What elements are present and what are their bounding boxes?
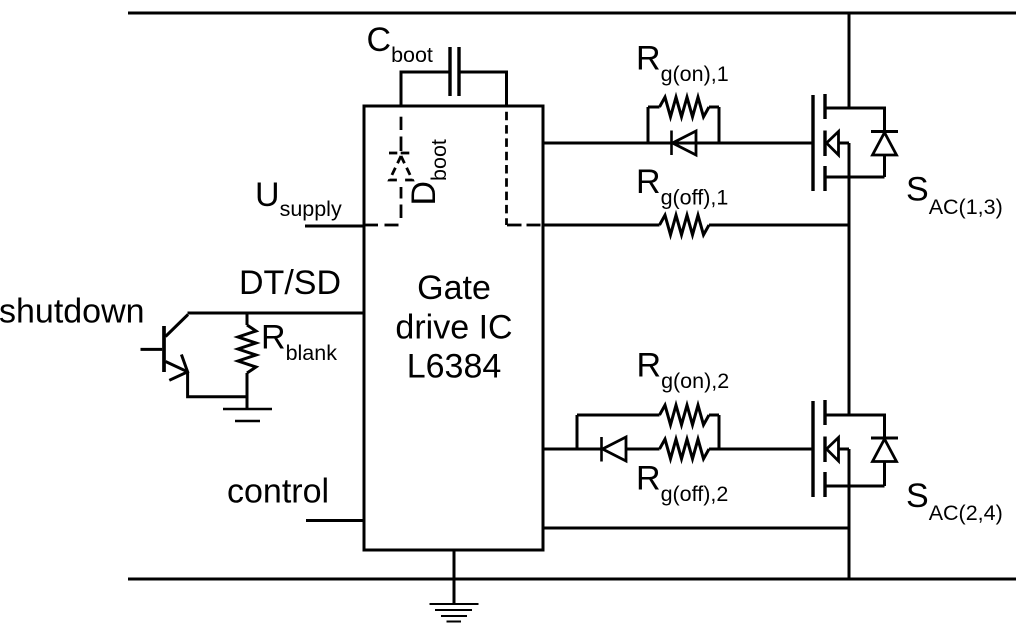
- resistor R_g(off),1 zigzag: [660, 215, 710, 235]
- transistor Q1 base lead: [141, 348, 163, 351]
- diode D_boot cathode bar (dashed): [389, 152, 409, 155]
- transistor Q1 base bar: [162, 326, 166, 372]
- ground shutdown circuit: [223, 409, 272, 421]
- wire R_g(on),1 branch left horizontal: [648, 106, 660, 109]
- transistor Q1 collector: [166, 315, 189, 337]
- wire R_g(on),2 branch right vertical: [718, 415, 721, 449]
- wire S2 body-diode top: [849, 415, 885, 438]
- wire S2 source lead: [825, 485, 885, 488]
- wire between D2 and R_g(off),2: [626, 448, 660, 451]
- wire S1 drain lead: [825, 107, 849, 110]
- wire dashed to right pin: [507, 224, 541, 227]
- svg-text:Usupply: Usupply: [255, 176, 342, 221]
- wire phase-leg vertical (top rail to S1 drain): [848, 13, 851, 108]
- ground IC earth symbol: [430, 604, 479, 622]
- transistor S1 MOSFET channel bar segments: [823, 94, 826, 191]
- wire IC ground stem: [453, 550, 456, 604]
- wire bottom DC rail: [128, 578, 1016, 581]
- wire R_g(on),1 branch right vertical: [718, 107, 721, 143]
- svg-text:control: control: [227, 473, 329, 511]
- transistor S1 body arrow: [827, 132, 839, 156]
- transistor S2 MOSFET gate bar: [811, 401, 814, 497]
- diode D_boot triangle (dashed): [390, 156, 402, 180]
- wire Usupply input: [305, 225, 364, 228]
- wire S2 body lead: [839, 448, 850, 451]
- transistor Q1 emitter: [166, 362, 188, 372]
- diode S2 body diode triangle: [873, 439, 897, 462]
- wire gate path S2 from IC: [542, 448, 601, 451]
- svg-text:shutdown: shutdown: [0, 293, 145, 331]
- svg-text:Gate: Gate: [417, 269, 491, 307]
- wire Cboot left lead: [401, 72, 450, 107]
- wire gate-on path S1: [543, 142, 813, 145]
- IC U1 gate drive IC L6384 box: [364, 106, 543, 550]
- diode S1 body diode cathode bar: [871, 130, 898, 133]
- wire control input: [306, 519, 364, 522]
- svg-text:Rblank: Rblank: [261, 319, 337, 366]
- wire IC lower output to S2 source: [543, 527, 849, 530]
- svg-text:DT/SD: DT/SD: [239, 264, 341, 302]
- wire S2 body-diode bottom: [883, 462, 886, 487]
- diode D2 triangle: [603, 437, 627, 461]
- wire gate path S2 to gate: [709, 448, 813, 451]
- wire S1 body lead: [839, 142, 850, 145]
- svg-text:Rg(off),2: Rg(off),2: [636, 460, 728, 507]
- resistor R_blank top lead: [246, 313, 249, 325]
- wire dashed bootstrap net right vertical: [505, 107, 508, 225]
- wire DT/SD input: [188, 312, 365, 315]
- svg-text:Rg(on),1: Rg(on),1: [636, 39, 729, 86]
- diode S2 body diode cathode bar: [871, 437, 898, 440]
- capacitor Cboot plates: [450, 47, 459, 96]
- wire top DC rail: [128, 12, 1016, 15]
- diode D2 cathode bar: [600, 437, 603, 462]
- wire R_g(on),1 branch right horizontal: [709, 106, 719, 109]
- transistor S2 body arrow: [827, 438, 839, 462]
- resistor R_g(on),2 zigzag: [660, 405, 710, 425]
- svg-text:Dboot: Dboot: [405, 139, 451, 205]
- wire S1 body-diode bottom: [883, 155, 886, 177]
- wire R_g(on),2 branch left horizontal: [577, 414, 660, 417]
- wire dashed bootstrap net left vertical: [400, 117, 403, 151]
- transistor S2 MOSFET channel bar segments: [823, 400, 826, 497]
- wire R_g(on),2 branch left vertical: [576, 415, 579, 449]
- wire S1 body-diode top: [849, 108, 885, 132]
- wire gate-off path S1 right: [709, 224, 849, 227]
- wire R_g(on),1 branch left vertical: [647, 107, 650, 143]
- wire S2 drain lead: [825, 414, 849, 417]
- resistor R_blank zigzag: [238, 325, 256, 373]
- transistor S1 MOSFET gate bar: [811, 95, 814, 191]
- diode Dboot label: [405, 139, 451, 205]
- svg-text:Cboot: Cboot: [367, 21, 433, 67]
- wire R_blank bottom lead to ground: [246, 373, 249, 409]
- svg-text:Rg(on),2: Rg(on),2: [637, 347, 730, 394]
- resistor R_g(on),1 zigzag: [660, 97, 710, 117]
- svg-text:SAC(2,4): SAC(2,4): [906, 477, 1003, 525]
- diode S1 body diode triangle: [873, 133, 897, 156]
- diode D1 triangle: [673, 131, 697, 155]
- diode D1 cathode bar: [670, 131, 673, 156]
- wire phase-leg vertical (S1 body/source down to S2 drain): [848, 143, 851, 415]
- wire dashed to Usupply pin: [364, 224, 399, 227]
- wire S1 source lead: [825, 176, 885, 179]
- wire dashed bootstrap net below diode: [400, 187, 403, 218]
- transistor Q1 emitter arrowhead chevron: [169, 355, 187, 381]
- wire Q1 emitter down: [188, 372, 247, 397]
- wire R_g(on),2 branch right horizontal: [709, 414, 719, 417]
- resistor R_g(off),2 zigzag: [660, 439, 710, 459]
- svg-text:Rg(off),1: Rg(off),1: [636, 163, 728, 210]
- wire gate-off path S1 left: [543, 224, 660, 227]
- svg-text:L6384: L6384: [407, 348, 502, 386]
- svg-text:SAC(1,3): SAC(1,3): [906, 170, 1003, 219]
- wire Cboot right lead: [459, 72, 507, 107]
- wire phase-leg vertical (S2 body/source down to bottom rail): [848, 449, 851, 579]
- svg-text:drive IC: drive IC: [395, 309, 512, 347]
